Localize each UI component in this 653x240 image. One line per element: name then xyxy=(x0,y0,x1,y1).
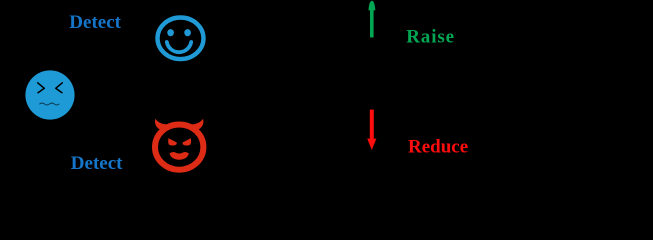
svg-text:Detect: Detect xyxy=(71,153,123,174)
right eye xyxy=(183,138,192,145)
svg-text:Detect: Detect xyxy=(69,12,121,33)
left horn xyxy=(155,119,167,130)
smiley face (blue, outline) xyxy=(158,18,204,60)
devil face (red) xyxy=(155,119,203,170)
svg-text:Reduce: Reduce xyxy=(408,137,468,158)
confounded face (blue, filled) xyxy=(25,70,74,119)
svg-text:Raise: Raise xyxy=(406,26,455,47)
grin xyxy=(170,152,189,160)
right horn xyxy=(191,119,203,130)
left eye xyxy=(168,138,177,145)
up arrow (green) xyxy=(369,1,376,38)
down arrow (red) xyxy=(367,110,376,150)
